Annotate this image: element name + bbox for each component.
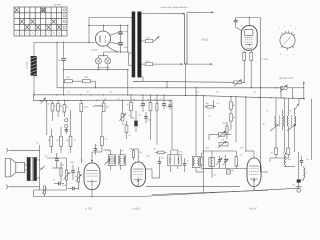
svg-text:40: 40 — [233, 116, 235, 119]
tube2 internals — [133, 168, 143, 170]
svg-text:0,2: 0,2 — [110, 91, 113, 94]
resistor mid A — [130, 95, 132, 103]
svg-text:U+CLF: U+CLF — [249, 207, 257, 210]
svg-text:1: 1 — [16, 32, 18, 35]
wire switch leads — [276, 87, 281, 89]
wire bus L2 — [57, 87, 283, 89]
transformer right tap top — [141, 13, 143, 15]
pot tone — [77, 172, 79, 182]
svg-text:0,1: 0,1 — [81, 159, 84, 162]
wire x161.8 drop — [156, 110, 158, 145]
svg-text:0,3: 0,3 — [57, 139, 60, 142]
switch mains — [41, 97, 46, 103]
wire tube to cap lower — [110, 42, 118, 44]
resistor osc top — [213, 100, 215, 105]
svg-text:4: 4 — [32, 32, 34, 35]
resistor under mid — [156, 145, 158, 152]
resistor 470 — [103, 101, 105, 103]
svg-text:0,5: 0,5 — [66, 106, 69, 109]
L4 junction dots — [50, 100, 171, 101]
svg-text:1M: 1M — [153, 98, 156, 101]
capacitor electrolytic C2 — [118, 42, 123, 44]
svg-text:15Ω: 15Ω — [84, 76, 88, 79]
svg-text:8: 8 — [53, 32, 55, 35]
resistor tall3 — [69, 136, 72, 146]
lamp dial right — [105, 58, 111, 64]
svg-text:50: 50 — [48, 103, 50, 106]
output transformer winding left — [27, 157, 30, 181]
capacitor 2n — [61, 58, 66, 60]
wire speaker bus vertical — [39, 145, 41, 190]
svg-text:1M: 1M — [62, 164, 65, 167]
IF transformer det A leads — [275, 98, 277, 116]
svg-text:0,1: 0,1 — [254, 91, 257, 94]
IFT1 winding box A — [108, 155, 116, 166]
resistor osc right — [235, 157, 238, 167]
wire L3-L4 left end — [33, 95, 35, 101]
svg-text:ZF1: ZF1 — [108, 150, 111, 153]
wire y166.7 — [284, 166, 295, 168]
pot volume — [65, 170, 67, 180]
tube1 internals — [87, 170, 98, 172]
IF transformer det A — [275, 116, 276, 126]
table right column symbols — [63, 9, 65, 29]
svg-text:0,5: 0,5 — [271, 152, 274, 155]
svg-text:2n: 2n — [75, 175, 77, 178]
svg-text:2M: 2M — [60, 105, 63, 108]
tube UL grids — [245, 38, 253, 42]
capacitor audio c — [72, 165, 74, 170]
svg-text:U 72F: U 72F — [85, 207, 92, 210]
output transformer core — [31, 157, 33, 181]
capacitor electrolytic C1 — [120, 26, 122, 32]
wire L2 right tail — [292, 87, 304, 89]
svg-text:0,1: 0,1 — [54, 105, 57, 108]
resistor tall1 — [50, 136, 53, 146]
electrolytic stack — [65, 119, 68, 122]
capacitor mid B — [142, 95, 144, 103]
IFT1 trimmer arrow — [105, 159, 111, 165]
svg-text:0,5: 0,5 — [45, 155, 48, 158]
wire cap column right — [127, 26, 129, 53]
capacitor mid E — [169, 101, 171, 105]
svg-text:40: 40 — [233, 104, 235, 107]
tube2 envelope — [131, 162, 146, 187]
tube1 envelope — [84, 163, 100, 190]
svg-text:50k: 50k — [147, 155, 150, 158]
resistor col B — [57, 101, 59, 104]
resistor 470n col — [80, 101, 82, 104]
L3 junction dots — [80, 94, 302, 99]
svg-text:7: 7 — [287, 54, 288, 57]
svg-text:2: 2 — [284, 25, 285, 28]
svg-text:KW: KW — [228, 171, 231, 174]
switching table frame — [14, 7, 67, 36]
resistor osc mid — [226, 126, 228, 133]
resistor col B2 — [63, 101, 65, 105]
svg-text:3: 3 — [290, 25, 291, 28]
svg-text:2n: 2n — [58, 59, 61, 62]
IFT1 winding box B — [119, 155, 126, 165]
terminal top — [6, 148, 7, 153]
wire x298.7 down — [298, 152, 300, 179]
resistor padding y134.5 — [209, 134, 219, 136]
osc trimmer caps — [219, 156, 221, 159]
socket pin numbers — [279, 25, 296, 58]
antenna up arrow — [303, 88, 305, 99]
wire ift1 leads — [109, 150, 111, 155]
tube socket diagram — [280, 31, 295, 51]
oscillator coil box left — [192, 156, 200, 167]
wire x236 drop — [235, 97, 237, 142]
svg-text:L: L — [306, 171, 307, 174]
svg-text:50p: 50p — [71, 161, 74, 164]
resistor above tube1 — [101, 112, 103, 137]
svg-text:U ACR: U ACR — [133, 207, 141, 210]
svg-text:20k: 20k — [206, 102, 209, 105]
transformer core bar left — [132, 12, 136, 78]
svg-text:ZF2: ZF2 — [179, 151, 182, 154]
capacitor ift2 — [184, 158, 186, 163]
antenna bottom arm — [187, 63, 213, 65]
antenna top arm — [187, 11, 214, 13]
svg-text:1M: 1M — [154, 148, 157, 151]
coil right low — [304, 168, 305, 178]
svg-text:150: 150 — [148, 119, 151, 122]
svg-text:80: 80 — [263, 123, 265, 126]
table circled X marker — [41, 8, 45, 12]
resistor mid low — [125, 125, 128, 133]
svg-text:8µ: 8µ — [139, 114, 142, 117]
terminal bottom — [6, 185, 7, 190]
wire bus L3 — [34, 95, 306, 99]
wire bus left terminal — [33, 190, 35, 197]
electrolytic blob right — [297, 179, 301, 182]
svg-text:2n: 2n — [147, 98, 149, 101]
wire col down x46.8 — [46, 101, 48, 135]
wire x63.7 drop — [63, 42, 65, 58]
resistor screen — [250, 50, 252, 52]
wire mid links — [130, 111, 132, 118]
wire tube1 grid top — [91, 152, 93, 160]
wire bus L1 — [133, 81, 234, 82]
svg-text:1: 1 — [279, 27, 280, 30]
wire det bottom row — [270, 157, 288, 159]
tube3 envelope — [247, 158, 261, 187]
pot mid with arrow — [122, 101, 124, 114]
wire tube2 couplings — [146, 168, 153, 170]
svg-text:30: 30 — [87, 91, 89, 94]
transformer left taps — [129, 52, 132, 54]
resistor osc 40a — [230, 96, 232, 102]
antenna feed arrow — [183, 13, 185, 15]
svg-text:2n: 2n — [307, 158, 309, 161]
wire osc row y151 — [204, 150, 237, 152]
wire x57 drop — [56, 42, 58, 87]
svg-text:220: 220 — [146, 36, 150, 39]
wire transformer leads — [37, 159, 40, 161]
wire mains feed top — [144, 13, 184, 15]
wire lamp rail right drop — [127, 70, 129, 95]
svg-text:470: 470 — [292, 184, 295, 187]
capacitor right bottom — [301, 156, 303, 161]
output transformer winding right — [33, 157, 36, 181]
svg-text:u.p mV: u.p mV — [53, 4, 61, 7]
wire right box verticals — [280, 88, 282, 98]
svg-text:4: 4 — [295, 27, 296, 30]
resistor mid C — [150, 95, 152, 102]
wire terminal bottom — [8, 186, 39, 188]
arrow speaker line — [40, 166, 45, 170]
misc value labels — [37, 91, 309, 188]
svg-text:ZF: ZF — [290, 110, 293, 113]
wire terminal top — [8, 149, 39, 151]
svg-text:6: 6 — [293, 53, 294, 56]
svg-text:50: 50 — [197, 91, 199, 94]
wire rail corner — [88, 18, 90, 43]
tube UL anode box — [245, 30, 253, 36]
wire cap to lamp rail — [63, 60, 65, 81]
svg-text:5: 5 — [37, 32, 39, 35]
svg-text:U L1N: U L1N — [262, 58, 269, 61]
wire det box right vertical — [310, 99, 312, 160]
tube UL cathode — [245, 43, 252, 45]
resistor osc small low — [226, 170, 230, 174]
wire x149.6 drop — [150, 111, 152, 140]
svg-text:300: 300 — [223, 122, 226, 125]
resistor audio b — [60, 168, 62, 176]
wire lamp bottoms — [97, 64, 99, 70]
wire anode rail B — [89, 25, 128, 27]
table bottom row numbers — [16, 32, 60, 35]
wire x95.5 vertical — [95, 81, 97, 88]
fuse 110V — [145, 63, 152, 66]
wire tube3 to det — [260, 97, 261, 98]
resistor heater R1 — [65, 80, 73, 83]
wire tube right drop — [259, 17, 261, 97]
wire x196 drop — [195, 88, 197, 157]
wire L1-L2 link x167 — [166, 82, 168, 88]
resistor L1 series — [234, 81, 242, 84]
wire dropper to bus — [33, 76, 35, 95]
resistor cathode — [243, 50, 245, 52]
svg-text:0,1: 0,1 — [240, 154, 243, 157]
svg-text:50: 50 — [187, 160, 189, 163]
svg-text:50: 50 — [133, 98, 135, 101]
wire x245.9 drop — [245, 97, 247, 151]
svg-text:100: 100 — [288, 158, 291, 161]
IF transformer det B — [287, 116, 288, 126]
pot bottom left — [43, 186, 45, 194]
svg-text:0,5: 0,5 — [217, 102, 220, 105]
wire det box mid vertical — [284, 98, 286, 152]
osc trimmer cap2 — [225, 155, 227, 159]
wire 110 to antenna foot — [153, 63, 183, 65]
svg-text:0,1: 0,1 — [118, 98, 121, 101]
switch with arrow — [281, 86, 288, 89]
svg-text:WK 014 + AZ: WK 014 + AZ — [279, 77, 293, 80]
wire lamp top rail — [98, 55, 108, 57]
svg-text:3: 3 — [27, 32, 29, 35]
wire agc slant lower — [141, 189, 291, 197]
wire ift2 leads — [170, 150, 172, 155]
svg-text:U vorw.: U vorw. — [26, 61, 29, 69]
svg-text:1M: 1M — [48, 139, 51, 142]
resistor mid if — [158, 151, 165, 153]
capacitor mid if — [159, 157, 161, 161]
capacitor audio d — [54, 183, 58, 185]
svg-text:4µ: 4µ — [140, 151, 143, 154]
svg-text:70p: 70p — [161, 157, 164, 160]
svg-text:50: 50 — [230, 129, 232, 132]
tube3 internals — [249, 165, 258, 167]
IFT2 box — [168, 155, 181, 166]
wire agc slant B — [152, 190, 268, 194]
wire det box left vertical — [259, 98, 261, 173]
wire tube1 bottom — [91, 184, 93, 197]
capacitor 0,1 — [163, 95, 165, 103]
wire cap rail to lamp rail — [103, 52, 105, 56]
svg-text:5k: 5k — [140, 105, 142, 108]
svg-text:1k: 1k — [127, 103, 129, 106]
capacitor mid low — [145, 112, 147, 116]
svg-text:7: 7 — [48, 32, 50, 35]
wire tube cathode to caps — [110, 33, 117, 35]
transformer right tap low — [141, 63, 145, 65]
antenna rod — [184, 14, 186, 65]
capacitor audio e — [68, 188, 72, 190]
resistor osc pot 170 — [219, 143, 228, 146]
tube2 top components — [137, 149, 139, 158]
resistor mid D — [156, 95, 158, 103]
transformer core bar right — [137, 12, 141, 78]
wire dropper top — [33, 42, 35, 56]
svg-text:25: 25 — [105, 98, 107, 101]
svg-text:LW: LW — [214, 174, 217, 177]
svg-text:0,2: 0,2 — [105, 138, 108, 141]
svg-text:5k: 5k — [37, 142, 39, 145]
coil choke — [95, 105, 103, 106]
trimmer arrow det A — [270, 124, 279, 131]
resistor tall2 — [60, 136, 63, 146]
resistor heater R2 — [83, 80, 91, 83]
svg-text:470: 470 — [106, 106, 110, 109]
svg-text:25k: 25k — [122, 123, 125, 126]
switch arrow det — [295, 104, 300, 111]
table X marks — [15, 8, 61, 30]
wire agc slant upper — [146, 185, 240, 187]
resistor on x203.5 — [200, 157, 203, 165]
wire osc row y168.5 — [204, 168, 213, 170]
ground electrode right — [298, 183, 300, 189]
svg-text:6: 6 — [43, 32, 45, 35]
svg-text:2k: 2k — [223, 134, 225, 137]
transformer bottom tap — [141, 76, 143, 78]
wire tube bottom curve — [107, 45, 119, 52]
svg-text:2: 2 — [21, 32, 23, 35]
wire speaker-transformer — [25, 164, 27, 166]
wire bus L4 — [34, 99, 173, 102]
wire ground bus bottom — [34, 196, 141, 198]
osc coil column — [211, 158, 212, 166]
wire tube3 top — [253, 151, 255, 154]
svg-text:1,5k: 1,5k — [240, 147, 244, 150]
wire audio rails — [47, 157, 67, 159]
tube UL output envelope — [241, 26, 257, 51]
resistor col A — [52, 101, 54, 104]
resistor mains dropper hatched — [31, 56, 37, 76]
svg-text:ZF: ZF — [267, 110, 270, 113]
svg-text:0,5: 0,5 — [129, 114, 132, 117]
svg-text:MW: MW — [206, 147, 210, 150]
svg-text:YB 01: YB 01 — [201, 39, 209, 42]
svg-text:0,1: 0,1 — [68, 91, 71, 94]
transformer right tap mid — [141, 40, 145, 42]
svg-text:8: 8 — [280, 53, 281, 56]
svg-text:0,1: 0,1 — [237, 165, 240, 168]
capacitor audio a — [56, 153, 58, 158]
electrolytic blob mid — [134, 121, 137, 127]
wire osc box left bottom — [195, 168, 197, 172]
oscillator coil box mid — [209, 158, 215, 167]
svg-text:ZF: ZF — [122, 150, 125, 153]
svg-text:0,1: 0,1 — [129, 134, 132, 137]
wire anode top — [236, 16, 261, 18]
lamp dial left — [95, 58, 101, 64]
coil right mid small — [284, 154, 285, 165]
svg-text:50k: 50k — [66, 139, 69, 142]
wire x63.4 to L3 — [63, 81, 65, 95]
svg-text:70: 70 — [159, 98, 161, 101]
wire tube3 bottom — [253, 181, 255, 190]
wire x203.5 column — [203, 96, 205, 194]
svg-text:8µ: 8µ — [217, 91, 220, 94]
svg-text:5n: 5n — [96, 144, 98, 147]
svg-text:470n: 470n — [84, 106, 88, 109]
wire lamp rail — [64, 69, 128, 71]
tube U77 internals — [99, 36, 101, 43]
svg-text:110: 110 — [146, 59, 150, 62]
IFT2 coils — [170, 156, 171, 164]
wire anode rail A — [89, 17, 132, 19]
wire right links — [290, 187, 299, 189]
svg-text:5n: 5n — [53, 179, 55, 182]
wire tube2 bottom — [137, 181, 139, 186]
svg-text:10n: 10n — [57, 160, 60, 163]
svg-text:0,1: 0,1 — [209, 115, 212, 118]
IF transformer det B leads — [287, 98, 289, 116]
tube U77 anode lead — [103, 26, 105, 32]
fuse 220V — [145, 39, 152, 42]
svg-text:7,5k: 7,5k — [231, 169, 235, 172]
loudspeaker — [16, 163, 25, 173]
svg-text:9: 9 — [58, 32, 60, 35]
trimmer arrow det B — [287, 124, 296, 131]
tube U77 rectifier — [95, 31, 110, 46]
wire heater rail — [34, 41, 96, 43]
wire antenna foot drop — [185, 64, 187, 95]
svg-text:4,2k: 4,2k — [221, 139, 225, 142]
svg-text:0,1: 0,1 — [74, 139, 77, 142]
capacitor near tube1 — [95, 144, 97, 148]
wire x172 drop — [171, 101, 173, 150]
svg-text:15Ω: 15Ω — [66, 76, 70, 79]
svg-text:nur bei W-H angeschlossen: nur bei W-H angeschlossen — [161, 6, 189, 9]
wire resistor row — [63, 80, 66, 82]
svg-text:U 77: U 77 — [92, 48, 98, 52]
resistor det B — [287, 148, 290, 155]
svg-text:0,5M: 0,5M — [62, 184, 67, 187]
